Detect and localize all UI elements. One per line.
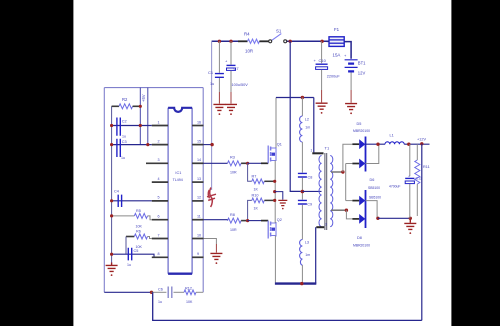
wire pin 5 net <box>112 200 152 202</box>
svg-text:2: 2 <box>158 139 160 143</box>
svg-text:D8: D8 <box>357 236 362 240</box>
wire main top bus <box>212 41 352 59</box>
svg-text:5: 5 <box>158 196 160 200</box>
inductor L1 <box>385 134 404 145</box>
wire pin 14 to R3 <box>204 162 228 164</box>
node R3 gate junction <box>246 162 249 165</box>
pin 15 <box>192 144 203 146</box>
node pin2 box edge junction <box>146 143 149 146</box>
svg-text:D5: D5 <box>357 122 362 126</box>
svg-text:L2: L2 <box>305 118 309 122</box>
wire gate node down to R7 <box>248 163 252 181</box>
wire R6 left to C5 net <box>125 237 127 255</box>
node mid rail R7 <box>273 180 276 183</box>
node output feedback <box>420 142 423 145</box>
wire left frame vertical <box>103 88 105 293</box>
svg-text:9: 9 <box>197 252 199 256</box>
svg-text:S1: S1 <box>276 29 282 34</box>
svg-text:R10: R10 <box>252 194 259 198</box>
resistor R11 <box>415 144 430 216</box>
svg-text:12: 12 <box>197 196 201 200</box>
svg-text:SB5100: SB5100 <box>368 186 380 190</box>
wire RC net to C6 <box>152 291 167 293</box>
node R8 gate junction <box>246 219 249 222</box>
wire pin 1 net <box>112 125 152 127</box>
capacitor C8 <box>298 173 312 179</box>
svg-text:C2: C2 <box>122 120 127 124</box>
diode D5 <box>359 139 365 149</box>
node pin1-R2 junction <box>139 124 142 127</box>
diode D8 lead <box>352 218 359 220</box>
svg-text:SB5100: SB5100 <box>369 196 381 200</box>
pin 9 <box>192 256 203 258</box>
wire bottom RC net left <box>104 291 151 293</box>
red annotation squiggle <box>207 188 216 208</box>
svg-text:4: 4 <box>158 177 160 181</box>
ground left rail bottom <box>106 263 118 277</box>
svg-text:R11: R11 <box>423 165 430 169</box>
diode D6 lead <box>352 163 359 165</box>
svg-text:R2: R2 <box>122 97 128 102</box>
resistor R8 <box>228 213 248 232</box>
cathode bar D7 D8 <box>365 190 367 228</box>
node pin15 junction <box>210 143 213 146</box>
svg-text:C8: C8 <box>308 176 313 180</box>
transformer T1 secondary winding <box>330 156 333 227</box>
node bus-C10 junction <box>320 40 323 43</box>
wire left rail <box>111 106 113 262</box>
wire L1 to output node <box>404 143 429 145</box>
capacitor C7 <box>225 41 248 103</box>
wire L3 to bottom rail <box>301 265 303 284</box>
svg-text:11: 11 <box>197 215 201 219</box>
node left rail pin5 <box>110 199 113 202</box>
svg-text:C6: C6 <box>158 288 163 292</box>
svg-text:+5V: +5V <box>141 94 146 102</box>
white schematic page <box>73 0 451 326</box>
ground pin 10 <box>210 253 222 264</box>
svg-text:T1: T1 <box>325 146 330 151</box>
wire L2 to C8 <box>301 142 303 173</box>
node mid rail ground <box>273 190 276 193</box>
node left rail pin2 <box>110 143 113 146</box>
diode D7 lead <box>352 200 359 202</box>
svg-text:R7: R7 <box>252 175 257 179</box>
pin 10 <box>192 238 203 240</box>
svg-text:C7: C7 <box>234 66 240 71</box>
resistor R10 <box>248 194 275 221</box>
node secondary tap upper <box>341 170 344 173</box>
transistor Q2 <box>268 218 282 239</box>
node secondary tap lower <box>345 209 348 212</box>
capacitor C1 <box>208 41 224 103</box>
pin 2 <box>152 144 168 146</box>
svg-text:Q2: Q2 <box>277 218 282 222</box>
svg-text:R6: R6 <box>136 230 141 234</box>
diode D5 lead <box>352 143 359 145</box>
wire mid rail to ground <box>275 192 283 200</box>
transformer T1 primary top lead <box>312 152 323 154</box>
node top rail chain junction <box>301 96 304 99</box>
ground below C7 <box>225 104 237 115</box>
svg-text:1m: 1m <box>305 126 310 130</box>
svg-text:C4: C4 <box>114 190 119 194</box>
wire primary bottom to bottom rail <box>315 227 317 283</box>
inductor L3 <box>300 240 311 266</box>
svg-text:10R: 10R <box>230 228 237 232</box>
wire pin 15 to bus drop <box>204 144 213 146</box>
fuse F1 <box>327 27 347 58</box>
node bottom rail chain junction <box>300 282 303 285</box>
node bus-C7 junction <box>229 40 232 43</box>
diode D7 <box>359 196 365 206</box>
switch S1 <box>269 29 287 43</box>
pin 6 <box>152 219 168 221</box>
svg-text:1u: 1u <box>210 82 214 86</box>
pin 3 <box>146 162 168 164</box>
wire D6 anode feed <box>346 163 353 165</box>
wire D6 anode link <box>345 164 347 201</box>
pin 13 <box>192 181 203 183</box>
diode D6 <box>359 159 365 169</box>
svg-text:16: 16 <box>197 120 201 124</box>
wire pin 8 net <box>112 254 156 257</box>
wire tap up to D5 anode <box>343 144 353 172</box>
svg-text:13: 13 <box>197 177 201 181</box>
wire Q1 drain up <box>275 98 277 149</box>
svg-text:MBR20100: MBR20100 <box>353 244 370 248</box>
svg-text:TL494: TL494 <box>173 178 183 182</box>
svg-text:4700uF: 4700uF <box>389 185 401 189</box>
capacitor C6 <box>158 287 172 305</box>
svg-text:F1: F1 <box>334 27 340 32</box>
node left rail pin1 <box>110 124 113 127</box>
svg-text:10K: 10K <box>136 225 143 229</box>
battery BT1 <box>344 53 366 76</box>
transformer T1 primary winding <box>319 156 322 227</box>
wire bus drop to divider mid <box>290 41 301 191</box>
svg-text:7: 7 <box>158 233 160 237</box>
svg-text:BT1: BT1 <box>358 61 366 66</box>
capacitor C12 <box>389 144 422 218</box>
ground below C10 <box>316 103 328 114</box>
wire secondary tap lower <box>331 209 346 211</box>
node out upper <box>376 143 379 146</box>
svg-text:1: 1 <box>158 120 160 124</box>
svg-text:C10: C10 <box>319 58 327 63</box>
node R2 right <box>139 105 142 108</box>
resistor R5 <box>112 209 152 229</box>
wire R12 to pin9 drop <box>196 291 203 293</box>
wire Q2 source down <box>274 236 276 283</box>
wire C8 to divider mid <box>301 178 303 200</box>
capacitor C2 <box>117 118 127 139</box>
wire bus left drop to pin 15 <box>211 41 213 190</box>
svg-text:+12V: +12V <box>417 138 426 142</box>
svg-text:1u: 1u <box>158 300 162 304</box>
inductor L2 <box>300 116 311 142</box>
ground below C1 <box>213 104 225 115</box>
wire half-bridge bottom rail <box>275 282 316 284</box>
svg-text:D6: D6 <box>370 178 375 182</box>
svg-text:10: 10 <box>197 233 201 237</box>
svg-text:C1: C1 <box>208 70 214 75</box>
svg-text:6: 6 <box>158 215 160 219</box>
svg-text:15A: 15A <box>333 53 341 58</box>
svg-text:L1: L1 <box>390 134 394 138</box>
pin 1 <box>152 125 168 127</box>
wire D7 anode feed <box>346 200 353 202</box>
wire pin 10 to ground <box>204 239 217 245</box>
wire pin 2 net <box>112 144 152 146</box>
capacitor C9 <box>298 200 312 206</box>
wire secondary tap upper <box>331 171 343 173</box>
node feedback RC junction <box>150 291 153 294</box>
wire half-bridge top rail <box>276 97 314 99</box>
svg-text:1K: 1K <box>254 188 259 192</box>
capacitor C4 <box>114 190 122 208</box>
svg-text:R12: R12 <box>185 287 192 291</box>
wire lower output rail <box>378 217 410 219</box>
svg-text:R8: R8 <box>230 213 235 217</box>
node output C12 <box>407 143 410 146</box>
svg-text:1K: 1K <box>254 207 259 211</box>
wire rectified out upper <box>366 143 386 145</box>
wire pin 11 to R8 <box>204 219 228 222</box>
svg-text:R5: R5 <box>136 209 141 213</box>
pin 16 <box>192 125 203 127</box>
svg-text:C9: C9 <box>307 203 312 207</box>
wire top rail to primary top <box>313 98 315 153</box>
svg-text:1u: 1u <box>127 263 131 267</box>
wire D6 cathode to out <box>366 144 379 163</box>
resistor R12 <box>184 287 196 305</box>
pin 11 <box>192 219 203 221</box>
transformer T1 primary bottom lead <box>316 226 324 228</box>
pin 7 <box>152 238 168 240</box>
svg-text:2200uF: 2200uF <box>327 75 341 79</box>
svg-text:R3: R3 <box>230 156 235 160</box>
transformer T1 core <box>325 153 327 230</box>
wire C9 to L3 <box>301 205 303 240</box>
svg-text:10R: 10R <box>230 171 237 175</box>
wire divider mid to primary <box>302 190 321 192</box>
node lower rail C12 <box>409 217 412 220</box>
ground below battery <box>345 104 357 115</box>
svg-text:100u/50V: 100u/50V <box>232 83 249 87</box>
capacitor C3 <box>117 139 127 160</box>
svg-text:C3: C3 <box>122 140 127 144</box>
wire feedback drop <box>421 144 423 321</box>
node mid rail R10 <box>273 199 276 202</box>
wire chain upper <box>301 98 303 117</box>
svg-text:15: 15 <box>197 139 201 143</box>
diode D8 <box>359 214 365 224</box>
wire feedback rail bottom <box>153 292 422 320</box>
svg-text:IC1: IC1 <box>175 171 181 175</box>
wire right frame vertical <box>202 88 204 293</box>
pin 14 <box>192 162 203 164</box>
wire Q1 source to Q2 drain rail <box>274 161 276 224</box>
ground mid rail <box>278 200 287 209</box>
capacitor C5 <box>127 248 138 267</box>
wire battery to ground <box>350 72 352 90</box>
cathode bar D5 D6 <box>365 137 367 172</box>
wire C6 to R12 <box>174 291 185 293</box>
svg-text:Q1: Q1 <box>277 143 282 147</box>
svg-text:MBR20100: MBR20100 <box>353 129 370 133</box>
op-amp U1 TL494 body <box>168 108 192 274</box>
pin 8 <box>152 256 168 258</box>
resistor R6 <box>126 230 152 250</box>
transistor Q1 <box>268 143 282 164</box>
node bus-R4 junction <box>218 40 221 43</box>
svg-text:R4: R4 <box>244 32 250 37</box>
resistor R4 <box>238 32 269 54</box>
pin 12 <box>192 200 203 202</box>
node lower rail left <box>376 217 379 220</box>
svg-text:C5: C5 <box>134 249 139 253</box>
wire R2 drop v1 <box>139 88 141 145</box>
svg-text:10R: 10R <box>245 49 253 54</box>
svg-text:1m: 1m <box>305 253 310 257</box>
wire v2 drop <box>147 88 149 145</box>
svg-text:1: 1 <box>311 149 313 153</box>
pin 5 <box>152 200 168 202</box>
svg-text:14: 14 <box>197 158 201 162</box>
resistor R7 <box>252 175 275 192</box>
pin 4 <box>152 181 168 183</box>
wire tap down to D8 anode <box>346 210 352 219</box>
wire frame top edge <box>104 87 203 89</box>
resistor R3 <box>228 156 248 175</box>
svg-text:10K: 10K <box>186 300 193 304</box>
svg-text:1u: 1u <box>121 156 125 160</box>
node left rail R5 <box>110 214 113 217</box>
resistor R2 <box>112 97 141 109</box>
capacitor C10 <box>314 41 341 102</box>
node bus half-bridge drop junction <box>289 40 292 43</box>
svg-text:1u: 1u <box>122 135 126 139</box>
svg-text:8: 8 <box>158 252 160 256</box>
wire R3 to Q1 gate <box>248 162 261 164</box>
ground output rail <box>404 218 416 234</box>
svg-text:12V: 12V <box>358 71 366 76</box>
node left rail C5 <box>110 253 113 256</box>
wire D7 cathode to lower rail <box>366 201 378 219</box>
svg-text:3: 3 <box>325 223 327 227</box>
wire R8 to Q2 gate <box>248 220 261 222</box>
svg-text:3: 3 <box>158 158 160 162</box>
svg-text:L3: L3 <box>305 241 309 245</box>
node divider midpoint <box>301 190 305 194</box>
